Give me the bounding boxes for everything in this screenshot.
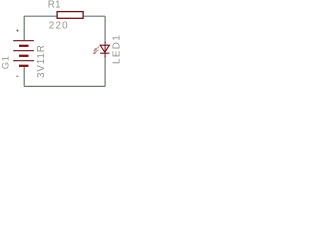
LED1 triangle [100,45,109,52]
wire: top horizontal left of resistor [24,15,57,17]
battery G1 minus sign [16,75,18,77]
wire: right vertical down to LED anode [104,16,106,43]
battery G1 long plate 3 [13,60,34,62]
wire: bottom horizontal [24,85,105,87]
LED1 cathode pin [104,53,106,57]
battery G1 long plate 1 [13,40,34,42]
battery G1 thick plate 2 [19,55,29,57]
battery G1 long plate 2 [13,50,34,52]
LED1 anode pin [104,42,106,53]
LED1 emission arrow lower [93,50,98,54]
battery G1 thick plate 1 [19,45,29,47]
battery G1 thick plate 3 [19,65,29,67]
wire: top horizontal right of resistor [84,15,105,17]
battery G1 plus sign [16,29,19,32]
wire: right vertical below LED cathode [104,56,106,87]
resistor R1 box [57,12,83,19]
background [0,0,130,105]
LED1 emission arrow upper [94,47,99,51]
LED1 cathode bar [100,52,109,54]
wire: battery top plate up to top-left corner [23,16,25,40]
wire: battery bottom plate down to bottom-left corner [23,67,25,87]
svg-text:LED1: LED1 [111,34,122,64]
svg-text:220: 220 [49,20,69,31]
svg-text:G1: G1 [1,56,12,70]
svg-text:R1: R1 [48,0,61,11]
svg-text:3V11R: 3V11R [36,44,47,78]
